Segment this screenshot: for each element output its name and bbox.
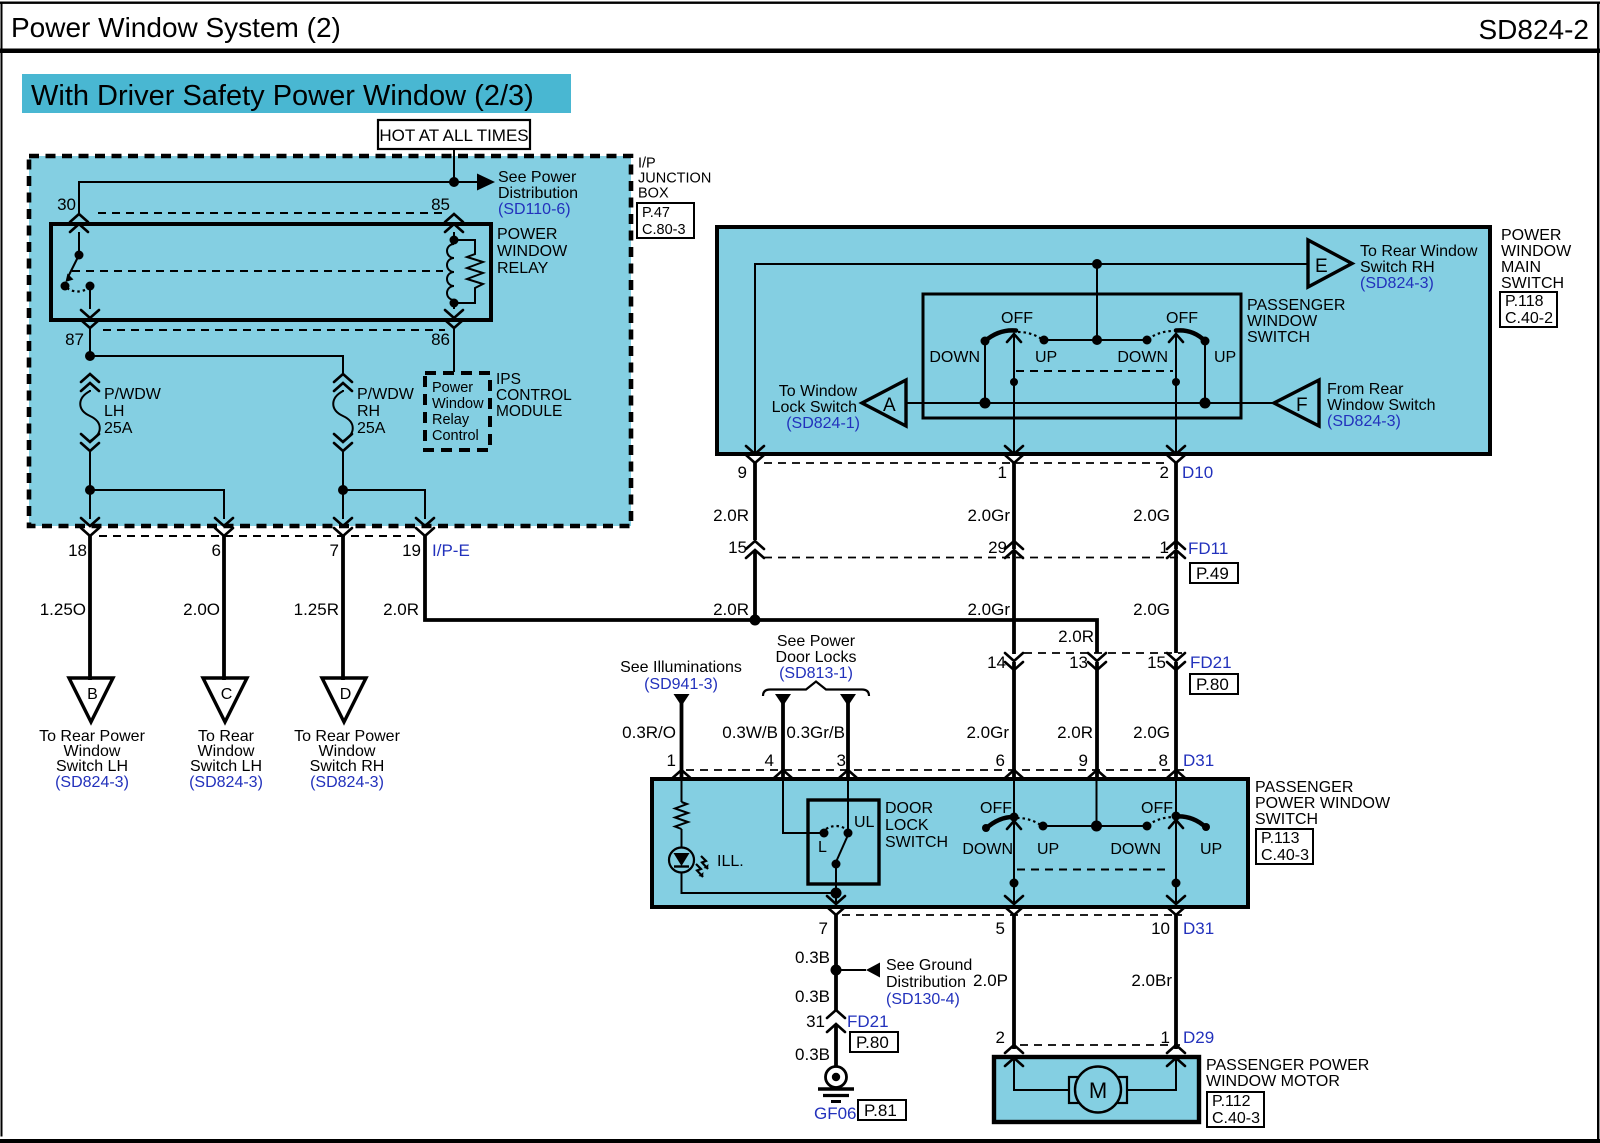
PASSENGER POWER WINDOW SWITCH box — [652, 779, 1248, 907]
svg-text:2.0G: 2.0G — [1133, 506, 1170, 525]
svg-text:FD21: FD21 — [847, 1012, 889, 1031]
left switch UP contact dot — [1040, 336, 1049, 345]
svg-text:(SD824-3): (SD824-3) — [189, 774, 263, 791]
D31 entry chevrons pin9 — [1088, 770, 1106, 789]
svg-text:MODULE: MODULE — [496, 403, 562, 420]
D10 dashed connector row — [764, 462, 1168, 464]
wire right UP contact to A-F line — [1204, 341, 1206, 403]
POWER WINDOW MAIN SWITCH box — [717, 227, 1490, 454]
svg-text:(SD941-3): (SD941-3) — [644, 676, 718, 693]
PASSENGER POWER WINDOW MOTOR box — [994, 1057, 1199, 1122]
svg-text:WINDOW: WINDOW — [1501, 243, 1572, 260]
left switch DOWN contact dot — [981, 337, 990, 346]
wire 2.0G FD11 to FD21 — [1174, 550, 1178, 653]
wire coil bottom to pin 86 — [453, 300, 455, 309]
curly brace — [763, 682, 869, 697]
svg-text:I/P-E: I/P-E — [432, 541, 470, 560]
svg-text:UP: UP — [1035, 349, 1057, 366]
svg-text:85: 85 — [431, 195, 450, 214]
svg-text:DOOR: DOOR — [885, 800, 933, 817]
svg-text:Switch LH: Switch LH — [56, 758, 128, 775]
svg-text:P/WDW: P/WDW — [357, 386, 415, 403]
pin 9 exit chevrons — [746, 446, 764, 463]
wire LED down and right to door lock junction — [682, 873, 837, 894]
wire pin4 down and right to L contact — [783, 781, 822, 833]
FD21 chevrons col 1176 — [1167, 653, 1185, 670]
D31 entry chevrons pin6 — [1005, 770, 1023, 789]
svg-text:OFF: OFF — [1141, 800, 1173, 817]
door lock UL contact dot — [844, 829, 853, 838]
wire junction dot at (454,182) — [449, 177, 459, 187]
svg-text:CONTROL: CONTROL — [496, 387, 572, 404]
svg-text:POWER: POWER — [497, 226, 557, 243]
svg-text:P.80: P.80 — [1196, 675, 1229, 694]
svg-text:Switch RH: Switch RH — [1360, 259, 1435, 276]
triangle E — [1308, 240, 1352, 287]
main switch top-row junction dot on y620 wire — [750, 615, 761, 626]
wire fuse RH down to junction — [342, 450, 344, 490]
D31 entry chevrons pin1 — [673, 770, 691, 789]
FD21 chevrons col 1014 — [1005, 653, 1023, 670]
relay mech dashed link — [72, 270, 443, 272]
wire junction to pin7 exit — [835, 893, 837, 904]
wire from HOT box down to junction — [453, 149, 455, 182]
fuse RH chevrons bottom — [334, 434, 352, 451]
svg-text:7: 7 — [819, 919, 828, 938]
svg-text:2.0P: 2.0P — [973, 971, 1008, 990]
wire pin9 down to center dot — [1096, 781, 1098, 826]
see ground distribution arrow — [836, 969, 866, 971]
motor pin2 entry chevrons — [1005, 1045, 1023, 1066]
svg-text:PASSENGER: PASSENGER — [1255, 779, 1353, 796]
wire 2.0G from D10 pin2 to FD11 — [1174, 463, 1178, 549]
svg-text:2.0G: 2.0G — [1133, 600, 1170, 619]
passenger left arrowhead on vertical — [1007, 821, 1021, 829]
wire pivot down to junction — [835, 864, 837, 893]
motor right tab — [1116, 1077, 1127, 1103]
wire 0.3B to ground — [834, 1024, 838, 1066]
motor pin1 entry chevrons — [1167, 1045, 1185, 1066]
contact link wire UP to center to right DOWN — [1044, 339, 1147, 341]
svg-text:Switch RH: Switch RH — [310, 758, 385, 775]
title separator line — [0, 49, 1600, 54]
wire 0.3Gr/B down to D31 pin3 — [846, 700, 850, 779]
relay switch closed contact dot — [86, 282, 95, 291]
svg-text:LH: LH — [104, 403, 124, 420]
svg-text:IPS: IPS — [496, 371, 521, 388]
door lock switch arm — [836, 835, 848, 862]
wire pin3 down to UL contact — [847, 781, 849, 833]
svg-text:RH: RH — [357, 403, 380, 420]
right switch dotted arc from DOWN — [1148, 331, 1173, 339]
relay switch arm (open) with arrowhead — [68, 255, 79, 277]
svg-text:P/WDW: P/WDW — [104, 386, 162, 403]
svg-text:POWER: POWER — [1501, 227, 1561, 244]
svg-text:86: 86 — [431, 330, 450, 349]
svg-text:POWER WINDOW: POWER WINDOW — [1255, 795, 1391, 812]
right switch DOWN contact dot — [1143, 336, 1152, 345]
svg-text:B: B — [87, 686, 98, 703]
ground distribution junction dot — [831, 965, 842, 976]
svg-text:I/P: I/P — [638, 156, 656, 172]
svg-text:2: 2 — [1160, 463, 1169, 482]
svg-text:Distribution: Distribution — [498, 185, 578, 202]
svg-text:0.3Gr/B: 0.3Gr/B — [786, 723, 845, 742]
svg-text:C.40-3: C.40-3 — [1261, 847, 1309, 864]
right switch thick arc to UP — [1176, 330, 1205, 341]
wire pin6 to triangle C — [222, 536, 226, 680]
wire 0.3B pin7 to ground dot — [834, 915, 838, 1010]
svg-text:2.0R: 2.0R — [713, 600, 749, 619]
svg-text:(SD824-1): (SD824-1) — [786, 415, 860, 432]
right switch UP contact dot — [1201, 337, 1210, 346]
svg-text:P.49: P.49 — [1196, 564, 1229, 583]
pin 7 exit chevrons — [827, 896, 845, 915]
svg-text:87: 87 — [65, 330, 84, 349]
small dot left common — [1010, 378, 1018, 386]
svg-text:(SD824-3): (SD824-3) — [1360, 275, 1434, 292]
svg-text:From Rear: From Rear — [1327, 381, 1404, 398]
wire 2.0R FD21 to D31 pin9 — [1095, 662, 1099, 779]
pin 6 exit chevrons — [215, 518, 233, 536]
svg-text:Door Locks: Door Locks — [776, 649, 857, 666]
svg-text:To Window: To Window — [779, 383, 858, 400]
label box P.118 C.40-2 — [1500, 292, 1557, 327]
wire 2.0G FD21 to D31 pin8 — [1174, 662, 1178, 779]
svg-text:0.3B: 0.3B — [795, 1045, 830, 1064]
passenger right arrowhead on vertical — [1169, 820, 1183, 828]
svg-text:1: 1 — [998, 463, 1007, 482]
svg-text:PASSENGER: PASSENGER — [1247, 297, 1345, 314]
fuse LH wavy element — [80, 390, 100, 441]
svg-text:See Ground: See Ground — [886, 957, 972, 974]
door lock switch box — [808, 800, 879, 884]
small dot right common — [1172, 378, 1180, 386]
svg-text:6: 6 — [212, 541, 221, 560]
svg-text:Switch LH: Switch LH — [190, 758, 262, 775]
svg-text:E: E — [1315, 256, 1328, 277]
A to F horizontal wire — [906, 402, 1274, 404]
svg-text:(SD824-3): (SD824-3) — [55, 774, 129, 791]
svg-text:D31: D31 — [1183, 919, 1214, 938]
pin 18 exit chevrons — [81, 518, 99, 536]
svg-text:SD824-2: SD824-2 — [1478, 14, 1589, 45]
svg-text:UL: UL — [854, 814, 875, 831]
passenger right pivot dot — [1172, 812, 1181, 821]
svg-text:DOWN: DOWN — [962, 841, 1013, 858]
svg-text:Power: Power — [432, 380, 473, 396]
D29 dashed connector row — [1020, 1044, 1180, 1046]
svg-text:WINDOW: WINDOW — [1247, 313, 1318, 330]
D31 entry chevrons pin4 — [774, 770, 792, 789]
wire 2.0Gr from D10 pin1 to FD11 — [1012, 463, 1016, 549]
svg-text:6: 6 — [996, 751, 1005, 770]
fuse RH chevrons top — [334, 374, 352, 391]
svg-text:8: 8 — [1159, 751, 1168, 770]
passenger small dot left — [1010, 879, 1019, 888]
svg-text:See Power: See Power — [777, 633, 856, 650]
svg-text:(SD824-3): (SD824-3) — [310, 774, 384, 791]
svg-text:0.3R/O: 0.3R/O — [622, 723, 676, 742]
passenger right arc end dot — [1202, 823, 1210, 831]
left switch dotted arc to UP — [1018, 332, 1043, 340]
relay coil top dot — [450, 236, 459, 245]
pin 1 exit chevrons — [1005, 446, 1023, 463]
door locks arrow down right — [840, 694, 856, 706]
junction dot on A-F at left — [980, 398, 991, 409]
svg-text:14: 14 — [987, 653, 1006, 672]
svg-text:DOWN: DOWN — [1117, 349, 1168, 366]
fuse LH chevrons top — [81, 374, 99, 391]
FD11 chevrons col 1014 — [1005, 541, 1023, 558]
svg-text:HOT AT ALL TIMES: HOT AT ALL TIMES — [379, 126, 528, 145]
label box P.47 C.80-3 — [637, 203, 694, 238]
svg-text:PASSENGER POWER: PASSENGER POWER — [1206, 1057, 1369, 1074]
pin 10 exit chevrons — [1167, 896, 1185, 915]
junction dot below fuse LH — [85, 485, 95, 495]
svg-text:SWITCH: SWITCH — [1247, 329, 1310, 346]
svg-text:30: 30 — [57, 195, 76, 214]
wire 0.3W/B down to D31 pin4 — [781, 700, 785, 779]
main switch top feed wire — [755, 264, 1308, 454]
svg-text:1: 1 — [667, 751, 676, 770]
wire fuse LH down to junction — [89, 450, 91, 490]
svg-text:(SD130-4): (SD130-4) — [886, 991, 960, 1008]
triangle D — [322, 678, 366, 722]
subtitle cyan bar — [22, 74, 571, 113]
svg-text:MAIN: MAIN — [1501, 259, 1541, 276]
svg-text:18: 18 — [68, 541, 87, 560]
svg-text:P.112: P.112 — [1212, 1093, 1251, 1110]
junction dot above pin7 — [831, 888, 842, 899]
wire 2.0R from D10 pin9 to FD11 — [753, 463, 757, 540]
branch to pin 19 column — [343, 490, 425, 519]
LED circle — [669, 848, 694, 873]
pin 7 exit chevrons — [334, 518, 352, 536]
svg-text:GF06: GF06 — [814, 1104, 857, 1123]
svg-text:SWITCH: SWITCH — [885, 834, 948, 851]
dashed connector row 30-85 — [98, 212, 442, 214]
svg-text:M: M — [1089, 1078, 1107, 1103]
svg-text:2.0Br: 2.0Br — [1131, 971, 1172, 990]
wire 2.0P D31 pin5 to D29 pin2 — [1012, 915, 1016, 1049]
wire pin18 to triangle B — [88, 536, 92, 680]
svg-text:Distribution: Distribution — [886, 974, 966, 991]
passenger left switch arc end dot — [982, 824, 990, 832]
illumination resistor — [675, 802, 688, 829]
svg-text:To Rear Window: To Rear Window — [1360, 243, 1478, 260]
relay switch: wire from pin30 to pivot — [78, 232, 80, 255]
svg-text:15: 15 — [1147, 653, 1166, 672]
passenger left switch thick arc — [986, 817, 1016, 829]
fuse LH chevrons bottom — [81, 434, 99, 451]
wire closed contact down to pin 87 — [89, 286, 91, 309]
FD21 dashed connector row — [1024, 652, 1182, 654]
svg-text:D10: D10 — [1182, 463, 1213, 482]
svg-text:See Illuminations: See Illuminations — [620, 659, 742, 676]
junction dot 87 branch — [85, 351, 95, 361]
fuse RH wavy element — [333, 390, 353, 441]
svg-text:P.81: P.81 — [864, 1101, 897, 1120]
wire pin 86 down into IPS control box — [453, 328, 455, 372]
svg-text:1.25R: 1.25R — [294, 600, 339, 619]
svg-text:OFF: OFF — [1166, 310, 1198, 327]
dashed connector row 87-86 — [103, 329, 445, 331]
svg-text:1: 1 — [1160, 538, 1169, 557]
svg-text:9: 9 — [738, 463, 747, 482]
center junction dot — [1092, 335, 1102, 345]
door locks arrow down left — [775, 694, 791, 706]
svg-text:SWITCH: SWITCH — [1501, 275, 1564, 292]
wire pin19 down and right to FD21 column — [425, 536, 1097, 653]
svg-text:FD21: FD21 — [1190, 653, 1232, 672]
motor left tab — [1069, 1077, 1080, 1103]
svg-text:WINDOW: WINDOW — [497, 243, 568, 260]
svg-text:Lock Switch: Lock Switch — [772, 399, 857, 416]
svg-text:2.0R: 2.0R — [713, 506, 749, 525]
svg-text:C.40-3: C.40-3 — [1212, 1110, 1260, 1127]
pin 85 chevrons — [445, 214, 463, 232]
svg-text:L: L — [818, 839, 827, 856]
svg-text:10: 10 — [1151, 919, 1170, 938]
D31 entry chevrons pin8 — [1167, 770, 1185, 789]
svg-text:2.0Gr: 2.0Gr — [967, 600, 1010, 619]
passenger right dotted arc — [1148, 817, 1174, 825]
dashed connector row 18-6-7-19 — [99, 535, 416, 537]
relay parallel resistor branch — [454, 240, 483, 303]
svg-text:9: 9 — [1079, 751, 1088, 770]
passenger left common vertical pin6-pin5 — [1013, 781, 1015, 904]
passenger center junction dot — [1091, 821, 1102, 832]
wire left DOWN contact to A-F line — [984, 341, 986, 403]
wire 2.0Gr FD21 to D31 pin6 — [1012, 662, 1016, 779]
passenger link wire UP-center-DOWN — [1043, 825, 1147, 827]
wire pin1 down to resistor — [681, 781, 683, 802]
svg-text:29: 29 — [988, 538, 1007, 557]
HOT AT ALL TIMES box — [378, 120, 530, 149]
svg-text:See Power: See Power — [498, 169, 577, 186]
relay switch dotted travel arc — [67, 288, 89, 292]
svg-text:25A: 25A — [357, 420, 386, 437]
svg-text:2.0O: 2.0O — [183, 600, 220, 619]
svg-text:P.118: P.118 — [1505, 293, 1544, 310]
page top border — [0, 2, 1600, 4]
branch wire to RH fuse column — [90, 356, 343, 374]
svg-text:2.0R: 2.0R — [1058, 627, 1094, 646]
svg-text:DOWN: DOWN — [1110, 841, 1161, 858]
svg-text:UP: UP — [1200, 841, 1222, 858]
svg-text:A: A — [883, 395, 896, 416]
svg-text:P.113: P.113 — [1261, 830, 1300, 847]
svg-text:RELAY: RELAY — [497, 260, 549, 277]
motor wires to tabs — [1014, 1060, 1069, 1090]
svg-text:2.0G: 2.0G — [1133, 723, 1170, 742]
passenger left switch dotted arc to UP — [1017, 818, 1042, 826]
passenger left switch UP dot — [1039, 822, 1048, 831]
svg-text:DOWN: DOWN — [929, 349, 980, 366]
wire resistor to LED — [681, 829, 683, 848]
svg-text:JUNCTION: JUNCTION — [638, 171, 711, 187]
svg-text:2.0R: 2.0R — [383, 600, 419, 619]
passenger mech link dashed — [1017, 869, 1171, 871]
wire 2.0R below FD11 down to y620 junction — [753, 550, 757, 620]
svg-text:2.0Gr: 2.0Gr — [966, 723, 1009, 742]
svg-text:C.80-3: C.80-3 — [642, 222, 686, 238]
I/P junction box (big dashed cyan box) — [29, 156, 631, 526]
svg-text:19: 19 — [402, 541, 421, 560]
motor circle M — [1075, 1067, 1121, 1113]
FD21 P.80 box — [1190, 674, 1238, 694]
svg-text:D29: D29 — [1183, 1028, 1214, 1047]
D31 top dashed connector row — [686, 769, 1184, 771]
page left border — [1, 2, 3, 1137]
wire pin18 column down — [89, 490, 91, 519]
label box P.112 C.40-3 — [1207, 1092, 1264, 1127]
wire pin7 to triangle D — [341, 536, 345, 680]
label box P.113 C.40-3 — [1256, 829, 1313, 864]
svg-text:2: 2 — [996, 1028, 1005, 1047]
FD21 chevrons col 1097 — [1088, 653, 1106, 670]
pin 30 chevrons — [70, 214, 88, 232]
svg-text:UP: UP — [1214, 349, 1236, 366]
svg-text:4: 4 — [765, 751, 774, 770]
triangle C — [203, 678, 247, 722]
svg-text:P.47: P.47 — [642, 205, 670, 221]
svg-text:ILL.: ILL. — [717, 853, 744, 870]
svg-text:Relay: Relay — [432, 412, 470, 428]
svg-text:0.3B: 0.3B — [795, 948, 830, 967]
svg-text:(SD813-1): (SD813-1) — [779, 665, 853, 682]
FD11 chevrons col 1176 — [1167, 541, 1185, 558]
wire 2.0Br D31 pin10 to D29 pin1 — [1174, 915, 1178, 1049]
door lock pivot dot — [832, 860, 841, 869]
svg-text:FD11: FD11 — [1188, 539, 1228, 558]
svg-text:LOCK: LOCK — [885, 817, 929, 834]
FD21 single connector chevrons pin31 — [827, 1010, 845, 1032]
svg-text:OFF: OFF — [980, 800, 1012, 817]
mechanical link dashed between switches — [1016, 370, 1173, 372]
svg-text:15: 15 — [728, 538, 747, 557]
left switch thick arc to DOWN — [985, 330, 1016, 341]
LED cathode bar — [674, 865, 689, 867]
wire pin7 column down — [342, 490, 344, 519]
svg-text:BOX: BOX — [638, 186, 669, 202]
wire from top feed down to switch common — [1096, 264, 1098, 340]
svg-text:3: 3 — [837, 751, 846, 770]
FD11 chevrons col 755 — [746, 541, 764, 558]
triangle A — [862, 380, 906, 426]
FD11 P.49 box — [1190, 563, 1238, 583]
svg-text:Power Window System (2): Power Window System (2) — [11, 12, 341, 43]
see illuminations arrow down — [674, 694, 690, 706]
svg-text:0.3W/B: 0.3W/B — [722, 723, 778, 742]
FD21 P.80 box — [850, 1032, 898, 1052]
pin 5 exit chevrons — [1005, 896, 1023, 915]
svg-text:25A: 25A — [104, 420, 133, 437]
svg-text:Window Switch: Window Switch — [1327, 397, 1435, 414]
svg-text:13: 13 — [1069, 653, 1088, 672]
svg-text:(SD824-3): (SD824-3) — [1327, 413, 1401, 430]
triangle F — [1274, 380, 1319, 426]
passenger small dot right — [1172, 879, 1181, 888]
page right border — [1597, 2, 1599, 1142]
svg-text:1.25O: 1.25O — [40, 600, 86, 619]
svg-text:2.0R: 2.0R — [1057, 723, 1093, 742]
relay switch pivot dot — [75, 251, 84, 260]
svg-text:SWITCH: SWITCH — [1255, 811, 1318, 828]
junction dot below fuse RH — [338, 485, 348, 495]
svg-text:2.0Gr: 2.0Gr — [967, 506, 1010, 525]
